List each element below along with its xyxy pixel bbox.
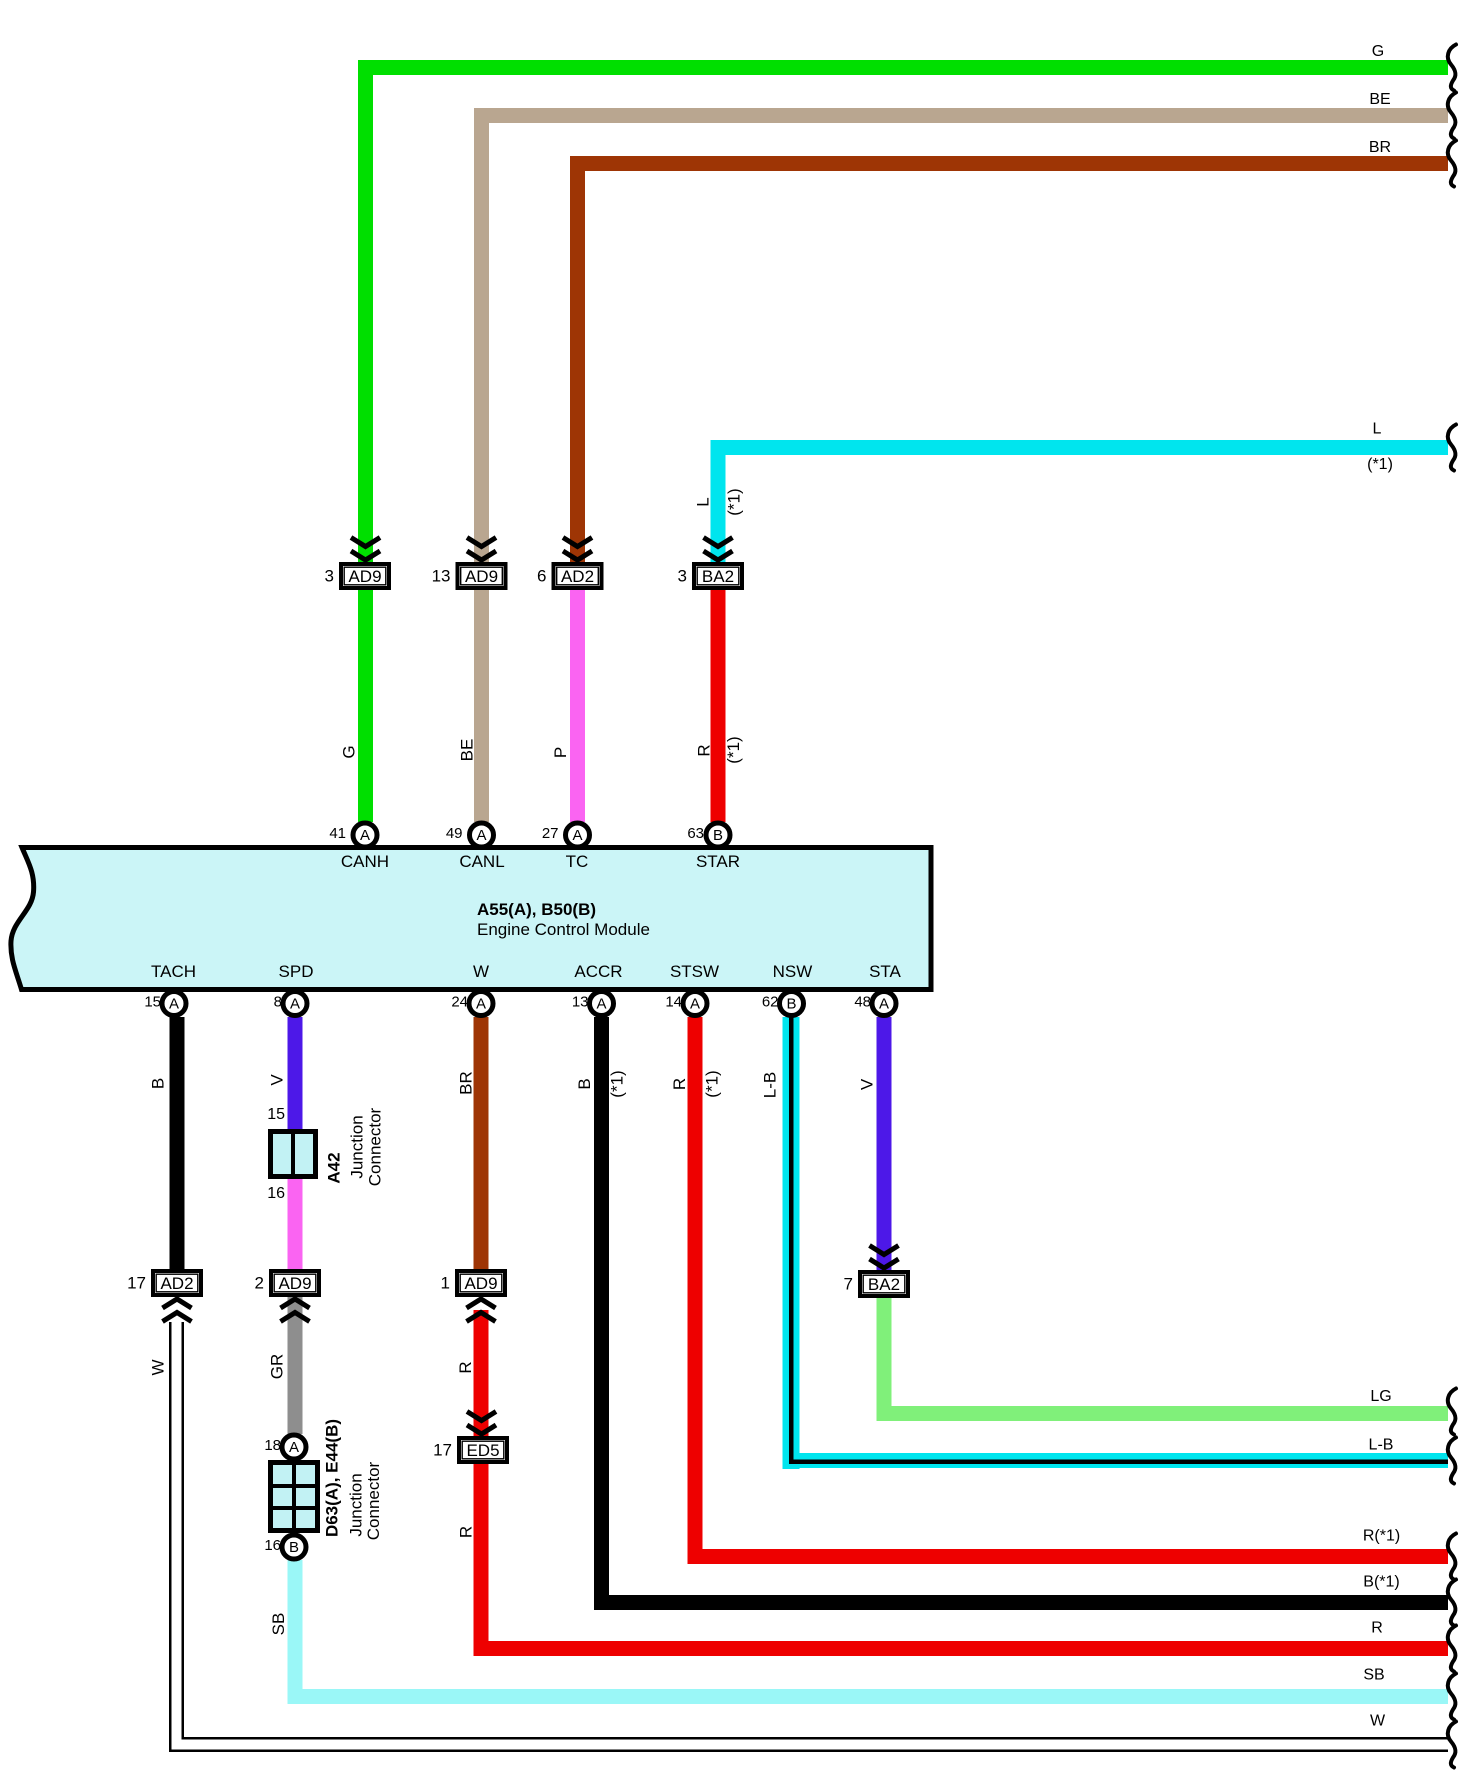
svg-text:L-B: L-B [761, 1072, 780, 1098]
svg-text:8: 8 [274, 994, 282, 1011]
svg-text:A42: A42 [325, 1152, 344, 1183]
svg-text:R: R [457, 1526, 476, 1538]
svg-text:P: P [551, 747, 570, 758]
svg-text:BE: BE [458, 739, 477, 762]
svg-text:W: W [473, 962, 489, 981]
connector 6 AD2 [537, 562, 603, 590]
wire LG (7 BA2 to edge) [877, 1298, 1449, 1421]
svg-text:BE: BE [1369, 91, 1390, 108]
wire R (STSW, pin 14, to edge R(*1)) [688, 1017, 1449, 1564]
pin 14 A (STSW) [665, 992, 707, 1016]
pin 48 A (STA) [854, 992, 896, 1016]
pin 49 A (CANL) [446, 823, 494, 847]
svg-text:A: A [169, 996, 179, 1013]
break symbol G [1448, 45, 1456, 91]
svg-text:R: R [456, 1361, 475, 1373]
svg-text:TACH: TACH [151, 962, 196, 981]
break symbol B(*1) [1448, 1580, 1456, 1626]
arrow into 3 AD9 [351, 538, 380, 561]
svg-text:B: B [575, 1078, 594, 1089]
svg-text:A: A [572, 827, 582, 844]
svg-text:B: B [289, 1539, 299, 1556]
svg-text:BR: BR [1369, 139, 1391, 156]
svg-text:(*1): (*1) [724, 736, 743, 763]
svg-text:R(*1): R(*1) [1363, 1528, 1400, 1545]
svg-text:L: L [694, 497, 713, 506]
svg-text:Junction: Junction [347, 1473, 366, 1536]
svg-text:R: R [695, 744, 714, 756]
svg-text:R: R [1371, 1620, 1383, 1637]
wire BR (W, pin 24) [474, 1017, 489, 1269]
arrow into 7 BA2 [870, 1246, 899, 1269]
svg-text:CANH: CANH [341, 852, 389, 871]
svg-text:AD2: AD2 [561, 567, 594, 586]
svg-text:16: 16 [267, 1185, 285, 1202]
svg-text:62: 62 [762, 994, 779, 1011]
svg-text:CANL: CANL [459, 852, 504, 871]
svg-text:SB: SB [269, 1613, 288, 1636]
svg-text:B: B [713, 827, 723, 844]
svg-text:GR: GR [268, 1354, 287, 1380]
svg-text:A: A [476, 827, 486, 844]
svg-text:AD9: AD9 [278, 1274, 311, 1293]
svg-text:AD9: AD9 [465, 567, 498, 586]
break symbol R [1448, 1626, 1456, 1672]
pin 63 B (STAR) [687, 823, 730, 847]
wire R (17 ED5 to edge) [474, 1464, 1449, 1656]
svg-text:7: 7 [844, 1275, 853, 1294]
wire BE (CANL, pin 49) [474, 108, 1448, 822]
svg-text:ACCR: ACCR [574, 962, 622, 981]
svg-text:A: A [596, 996, 606, 1013]
wire L-B (NSW, pin 62, to edge) [783, 1017, 1449, 1469]
svg-text:A55(A), B50(B): A55(A), B50(B) [477, 900, 596, 919]
svg-text:ED5: ED5 [466, 1441, 499, 1460]
arrow into 6 AD2 [563, 538, 592, 561]
svg-text:G: G [1372, 43, 1384, 60]
break symbol R(*1) [1448, 1534, 1456, 1580]
break symbol LG [1448, 1389, 1456, 1435]
pin 16 B (D63) [264, 1535, 306, 1559]
connector 3 AD9 [325, 562, 391, 590]
svg-text:V: V [268, 1074, 287, 1086]
wire L (STAR upper, pin 3 BA2) [711, 440, 1449, 563]
svg-text:BA2: BA2 [702, 567, 734, 586]
wire R (STAR, pin 63) [711, 590, 726, 822]
svg-text:6: 6 [537, 567, 546, 586]
connector 1 AD9 [441, 1269, 507, 1297]
arrow into 13 AD9 [467, 538, 496, 561]
svg-text:Junction: Junction [348, 1115, 367, 1178]
svg-text:A: A [290, 996, 300, 1013]
connector 3 BA2 [678, 562, 744, 590]
svg-text:15: 15 [144, 994, 161, 1011]
svg-text:24: 24 [451, 994, 468, 1011]
pin 62 B (NSW) [762, 992, 804, 1016]
break symbol L [1448, 425, 1456, 471]
svg-text:(*1): (*1) [702, 1070, 721, 1097]
svg-text:TC: TC [566, 852, 589, 871]
wire P (SPD to 2 AD9) [288, 1179, 303, 1269]
svg-text:B: B [786, 996, 796, 1013]
connector 13 AD9 [432, 562, 508, 590]
wire G (CANH, pin 41) [358, 60, 1448, 822]
break symbol W [1448, 1722, 1456, 1768]
arrow out of 2 AD9 [281, 1299, 310, 1322]
wire B (ACCR, pin 13, to edge B(*1)) [594, 1017, 1448, 1610]
wire W (17 AD2 to edge, white with outline) [170, 1322, 1448, 1751]
svg-text:13: 13 [432, 567, 451, 586]
svg-text:13: 13 [572, 994, 589, 1011]
svg-text:G: G [340, 745, 359, 758]
svg-text:STSW: STSW [670, 962, 719, 981]
svg-text:AD2: AD2 [160, 1274, 193, 1293]
arrow into 3 BA2 [704, 538, 733, 561]
break symbol L-B [1448, 1438, 1456, 1484]
svg-text:V: V [858, 1078, 877, 1090]
svg-text:L-B: L-B [1369, 1437, 1394, 1454]
svg-text:Connector: Connector [364, 1461, 383, 1540]
svg-text:BA2: BA2 [868, 1275, 900, 1294]
svg-text:LG: LG [1370, 1388, 1391, 1405]
svg-text:48: 48 [854, 994, 871, 1011]
svg-text:(*1): (*1) [608, 1070, 627, 1097]
svg-text:Engine Control Module: Engine Control Module [477, 920, 650, 939]
break symbol BE [1448, 93, 1456, 139]
pin 13 A (ACCR) [572, 992, 614, 1016]
connector 17 ED5 [433, 1436, 509, 1464]
wire SB (D63 pin 16 to edge) [288, 1560, 1449, 1704]
svg-text:16: 16 [264, 1537, 281, 1554]
junction connector A42 [267, 1106, 384, 1202]
svg-text:W: W [149, 1359, 168, 1375]
svg-text:AD9: AD9 [464, 1274, 497, 1293]
svg-text:3: 3 [325, 567, 334, 586]
connector 17 AD2 [127, 1269, 203, 1297]
svg-text:49: 49 [446, 825, 463, 842]
svg-text:(*1): (*1) [1367, 456, 1393, 473]
svg-text:2: 2 [255, 1274, 264, 1293]
svg-text:(*1): (*1) [725, 488, 744, 515]
wire P (TC, pin 27) [570, 590, 585, 822]
svg-text:STAR: STAR [696, 852, 740, 871]
wire R (1 AD9 to 17 ED5) [474, 1310, 489, 1436]
svg-text:A: A [360, 827, 370, 844]
svg-text:SB: SB [1363, 1667, 1384, 1684]
svg-text:BR: BR [457, 1071, 476, 1095]
pin 27 A (TC) [542, 823, 590, 847]
wire V (SPD, pin 8) [288, 1017, 303, 1129]
svg-text:Connector: Connector [366, 1107, 385, 1186]
arrow out of 17 AD2 [163, 1299, 192, 1322]
svg-text:3: 3 [678, 567, 687, 586]
svg-text:A: A [879, 996, 889, 1013]
pin 18 A (D63) [264, 1435, 306, 1459]
svg-text:L: L [1373, 421, 1382, 438]
break symbol BR [1448, 141, 1456, 187]
connector 7 BA2 [844, 1270, 910, 1298]
svg-text:B(*1): B(*1) [1363, 1574, 1399, 1591]
arrow into 17 ED5 [467, 1412, 496, 1435]
Engine Control Module A55(A), B50(B) [11, 848, 931, 990]
svg-text:SPD: SPD [279, 962, 314, 981]
svg-text:15: 15 [267, 1106, 285, 1123]
pin 8 A (SPD) [274, 992, 307, 1016]
arrow out of 1 AD9 [467, 1299, 496, 1322]
wire BR (TC upper, pin 6 AD2) [570, 156, 1448, 563]
svg-text:NSW: NSW [773, 962, 813, 981]
svg-text:17: 17 [127, 1274, 146, 1293]
svg-text:41: 41 [329, 825, 346, 842]
pin 24 A (W) [451, 992, 493, 1016]
svg-text:14: 14 [665, 994, 682, 1011]
svg-text:R: R [670, 1078, 689, 1090]
svg-text:A: A [476, 996, 486, 1013]
svg-text:A: A [289, 1439, 299, 1456]
connector 2 AD9 [255, 1269, 321, 1297]
svg-text:27: 27 [542, 825, 559, 842]
svg-text:AD9: AD9 [348, 567, 381, 586]
svg-text:D63(A), E44(B): D63(A), E44(B) [323, 1419, 342, 1537]
svg-text:17: 17 [433, 1441, 452, 1460]
pin 15 A (TACH) [144, 992, 186, 1016]
wire B (TACH, pin 15) [170, 1017, 185, 1269]
svg-text:A: A [690, 996, 700, 1013]
svg-text:B: B [149, 1078, 168, 1089]
wire V (STA, pin 48) [877, 1017, 892, 1270]
junction connector D63(A), E44(B) [268, 1419, 383, 1540]
svg-text:W: W [1370, 1713, 1386, 1730]
break symbol SB [1448, 1674, 1456, 1720]
wire GR (2 AD9 to D63 pin 18) [288, 1297, 303, 1434]
svg-text:18: 18 [264, 1437, 281, 1454]
svg-text:STA: STA [869, 962, 901, 981]
svg-text:1: 1 [441, 1274, 450, 1293]
svg-text:63: 63 [687, 825, 704, 842]
pin 41 A (CANH) [329, 823, 377, 847]
